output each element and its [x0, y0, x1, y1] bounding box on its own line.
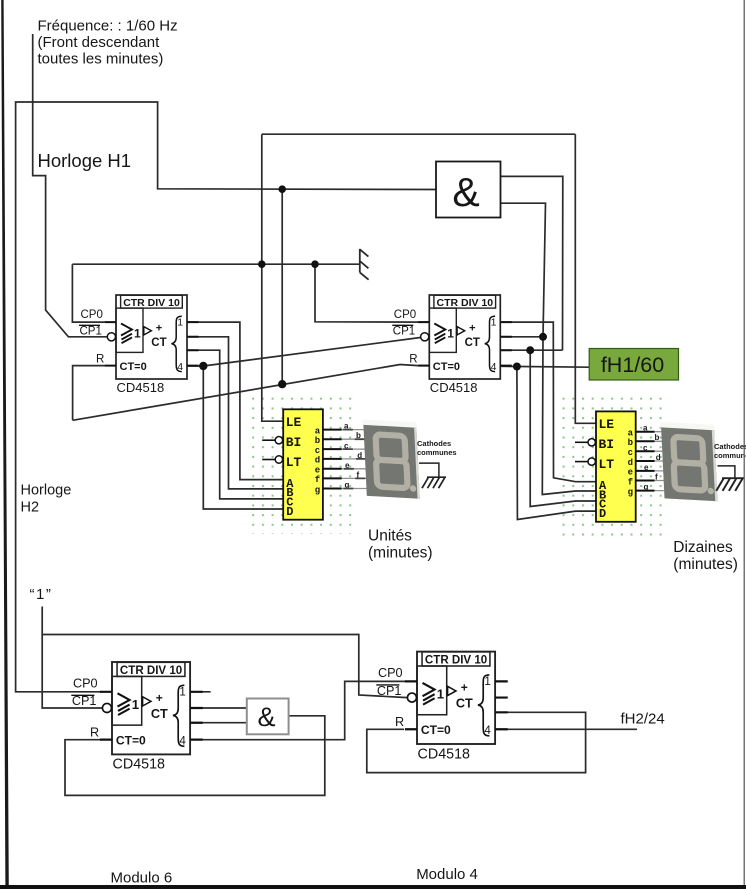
wire AND1 input B from U2 out2 riser — [500, 203, 596, 494]
svg-text:g: g — [644, 483, 649, 492]
svg-text:H2: H2 — [21, 500, 40, 516]
wire U2 out4 to green output box — [500, 365, 589, 368]
svg-text:&: & — [452, 169, 479, 215]
wire U3 out1 stub — [190, 691, 211, 693]
wire U4 out3 feedback to R4 — [367, 712, 586, 772]
junction dot decoder2 C riser — [526, 346, 534, 354]
wire U3 out2 to AND2 — [190, 707, 247, 709]
segment wires decoder2 to display2 — [655, 432, 669, 491]
svg-text:fH2/24: fH2/24 — [621, 711, 665, 728]
wire U3 out3 to AND2 — [190, 722, 247, 724]
wire logic 1 branch to U4 CP1 — [42, 635, 407, 698]
svg-text:commune: commune — [714, 451, 746, 460]
wire U3 out4 to U4 CP0 — [190, 681, 406, 739]
svg-text:f: f — [655, 473, 658, 482]
output box fH1/60 — [589, 349, 678, 381]
ground symbol top (CP0 tie) — [360, 249, 369, 280]
page bottom bar — [0, 885, 746, 889]
wire U2 out3 line — [500, 349, 562, 351]
svg-text:e: e — [644, 463, 649, 472]
wire CP0 riser U2 — [315, 264, 429, 322]
decoder 2 (7-seg decoder, tens) — [575, 411, 655, 521]
wire LE riser to decoder 2 — [575, 134, 596, 423]
segment wire labels a-g display1 — [344, 421, 362, 489]
wire ground line (CP0 tie) — [72, 263, 359, 265]
counter U3 CD4518 modulo 6 — [71, 662, 202, 773]
wire U1 out2 to decoder1 B — [187, 337, 283, 489]
svg-text:(minutes): (minutes) — [368, 545, 433, 562]
wire U2 out2 stub to junction — [500, 336, 543, 338]
svg-text:Fréquence: : 1/60 Hz: Fréquence: : 1/60 Hz — [38, 18, 178, 35]
svg-text:a: a — [643, 423, 648, 432]
wire carry diagonal U1 out4 to CP1 of U2 — [203, 338, 420, 367]
7-segment display 2 (cathodes communes) — [660, 422, 718, 501]
svg-text:“1”: “1” — [30, 586, 53, 603]
svg-text:(minutes): (minutes) — [673, 556, 738, 573]
svg-text:Horloge H1: Horloge H1 — [38, 150, 132, 171]
svg-text:c: c — [643, 443, 648, 452]
svg-text:Cathodes: Cathodes — [714, 442, 746, 451]
svg-text:Cathodes: Cathodes — [417, 439, 451, 448]
wire LE riser to decoder 1 — [262, 134, 283, 421]
svg-text:Unités: Unités — [368, 528, 412, 545]
7-segment display 1 (cathodes communes) — [363, 419, 421, 498]
wire R1 to reset diagonal — [73, 366, 105, 421]
wire U1 out1 to decoder1 A — [187, 322, 283, 480]
decoder 1 (7-seg decoder, units) — [262, 409, 342, 519]
cathode wire and chassis ground display1 — [419, 463, 439, 477]
svg-text:fH1/60: fH1/60 — [601, 353, 664, 377]
wire reset diagonal to R2 — [73, 365, 430, 421]
page right border — [744, 0, 745, 889]
wire logic 1 net to CP1 of U3 and CP1 of U4 — [42, 607, 102, 709]
wire CP0 riser U1 — [72, 264, 105, 322]
junction dot U2 out2 riser — [539, 333, 547, 341]
wire AND1 input A from U2 out3 — [500, 176, 562, 350]
wire AND2 output feedback to R3 — [65, 716, 325, 796]
AND gate 2 — [247, 699, 289, 735]
junction dot reset diagonal — [278, 380, 286, 388]
junction dot LE riser on ground line — [258, 260, 266, 268]
green dot grid left — [246, 397, 357, 535]
svg-text:Horloge: Horloge — [21, 483, 72, 499]
wire reset drop from AND1 output line to reset diagonal — [281, 189, 283, 384]
wire decoder2 C riser — [530, 350, 596, 506]
wire LE bus horizontal — [262, 133, 576, 135]
wire H1 clock from frequency label to CP1 of U1 — [33, 34, 108, 337]
cathode wire and chassis ground display2 — [718, 466, 735, 478]
wire U4 out4 fH2/24 output — [495, 728, 637, 730]
AND gate 1 — [436, 162, 501, 218]
svg-text:Modulo 4: Modulo 4 — [416, 866, 478, 883]
counter U2 CD4518 minutes tens — [392, 295, 512, 395]
wire U2 out1 to decoder2 A — [500, 322, 596, 482]
wire U1 out4 to decoder1 D — [187, 366, 283, 509]
segment wires decoder1 to display1 — [342, 430, 371, 489]
wire U1 out3 to decoder1 C — [187, 350, 283, 499]
svg-text:Dizaines: Dizaines — [673, 539, 733, 556]
svg-text:d: d — [656, 453, 661, 462]
junction dot CP0 riser U2 on ground line — [311, 260, 319, 268]
svg-text:b: b — [655, 433, 660, 442]
junction dot decoder2 D riser — [513, 363, 521, 371]
svg-text:Modulo 6: Modulo 6 — [111, 870, 173, 887]
counter U4 CD4518 modulo 4 — [376, 652, 507, 763]
green dot grid right — [556, 395, 668, 537]
segment wire labels a-g display2 — [643, 423, 661, 491]
wire net H2: AND1 output to left rail and down to CP0 of U3 — [16, 102, 436, 692]
page left border — [1, 0, 9, 889]
junction dot U1 out4 carry — [199, 362, 207, 370]
svg-text:(Front descendant: (Front descendant — [38, 34, 161, 51]
svg-text:&: & — [257, 702, 275, 732]
svg-text:communes: communes — [417, 448, 457, 457]
wire decoder2 D riser — [517, 367, 596, 520]
junction dot AND1 output / reset drop — [278, 185, 286, 193]
svg-text:toutes les minutes): toutes les minutes) — [38, 51, 164, 68]
counter U1 CD4518 minutes units — [79, 295, 199, 395]
